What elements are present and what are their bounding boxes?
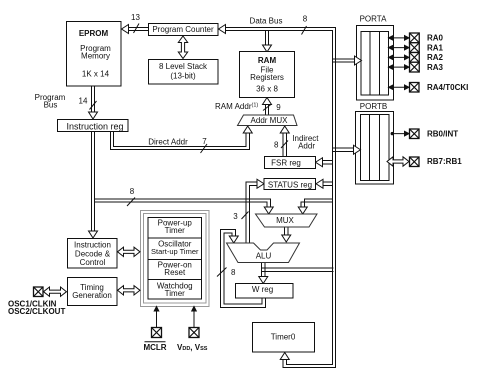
- svg-text:RA0: RA0: [427, 34, 444, 43]
- svg-text:9: 9: [276, 103, 281, 112]
- svg-text:Memory: Memory: [81, 52, 110, 61]
- svg-text:RAM: RAM: [258, 56, 277, 65]
- svg-text:8: 8: [130, 187, 135, 196]
- svg-text:STATUS reg: STATUS reg: [268, 181, 312, 190]
- svg-text:Addr MUX: Addr MUX: [251, 116, 289, 125]
- svg-text:8 Level Stack: 8 Level Stack: [159, 62, 208, 71]
- svg-text:RA3: RA3: [427, 63, 444, 72]
- svg-text:Direct Addr: Direct Addr: [148, 138, 188, 147]
- svg-text:RB0/INT: RB0/INT: [427, 129, 458, 138]
- svg-text:Instruction: Instruction: [74, 240, 111, 249]
- svg-text:Instruction reg: Instruction reg: [66, 121, 123, 131]
- svg-text:PORTA: PORTA: [360, 15, 387, 24]
- svg-text:(1): (1): [252, 103, 259, 109]
- svg-text:Reset: Reset: [164, 268, 186, 277]
- svg-text:Bus: Bus: [44, 101, 58, 110]
- svg-text:(13-bit): (13-bit): [170, 72, 196, 81]
- svg-text:8: 8: [231, 268, 236, 277]
- svg-text:W reg: W reg: [252, 285, 273, 294]
- svg-text:Data Bus: Data Bus: [250, 17, 283, 26]
- svg-text:13: 13: [131, 13, 140, 22]
- svg-text:Timer: Timer: [165, 289, 185, 298]
- svg-text:36 x 8: 36 x 8: [256, 84, 278, 93]
- svg-text:3: 3: [233, 212, 238, 221]
- svg-text:7: 7: [202, 137, 207, 146]
- svg-text:Decode &: Decode &: [75, 249, 111, 258]
- svg-text:MUX: MUX: [276, 216, 294, 225]
- svg-text:1K x 14: 1K x 14: [82, 69, 110, 78]
- svg-text:Control: Control: [80, 258, 106, 267]
- svg-text:Program Counter: Program Counter: [152, 25, 214, 34]
- svg-text:Timer0: Timer0: [271, 333, 296, 342]
- svg-text:RA1: RA1: [427, 43, 444, 52]
- svg-text:RA2: RA2: [427, 53, 444, 62]
- svg-text:ALU: ALU: [256, 252, 272, 261]
- svg-text:8: 8: [274, 141, 279, 150]
- svg-text:RAM Addr: RAM Addr: [215, 102, 252, 111]
- svg-text:RA4/T0CKI: RA4/T0CKI: [427, 83, 468, 92]
- svg-text:Registers: Registers: [250, 73, 284, 82]
- svg-text:RB7:RB1: RB7:RB1: [427, 157, 462, 166]
- svg-text:Start-up Timer: Start-up Timer: [151, 247, 199, 256]
- svg-text:Generation: Generation: [72, 291, 112, 300]
- svg-text:14: 14: [79, 97, 88, 106]
- svg-text:EPROM: EPROM: [79, 29, 109, 38]
- svg-text:MCLR: MCLR: [143, 343, 166, 352]
- svg-text:PORTB: PORTB: [360, 102, 387, 111]
- svg-text:8: 8: [303, 15, 308, 24]
- svg-text:Addr: Addr: [298, 142, 315, 151]
- svg-text:Timer: Timer: [165, 226, 185, 235]
- svg-text:OSC2/CLKOUT: OSC2/CLKOUT: [8, 307, 65, 316]
- svg-text:FSR reg: FSR reg: [271, 159, 301, 168]
